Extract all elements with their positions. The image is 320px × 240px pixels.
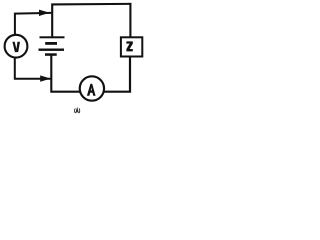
label Z xyxy=(126,41,132,51)
caption (A) xyxy=(75,108,80,113)
label V xyxy=(12,42,20,52)
impedance Z1 box xyxy=(121,37,142,56)
wire voltmeter bottom lead xyxy=(15,58,51,79)
arrowhead top probe xyxy=(39,10,50,16)
wire main loop top: battery top to Z box top xyxy=(52,4,130,37)
arrowhead bottom probe xyxy=(40,75,50,81)
battery B1 plate short bottom xyxy=(45,53,57,56)
battery B1 plate long top xyxy=(40,36,65,38)
wire voltmeter top lead xyxy=(15,13,51,35)
wire Z box bottom to bottom-right corner to ammeter right xyxy=(104,57,130,91)
battery B1 plate short xyxy=(45,42,57,45)
battery B1 plate long xyxy=(39,49,65,51)
wire ammeter left to bottom-left corner to battery bottom xyxy=(51,55,80,91)
voltmeter V1 circle xyxy=(5,35,28,58)
label A xyxy=(87,84,96,96)
ammeter A1 circle xyxy=(80,76,104,100)
